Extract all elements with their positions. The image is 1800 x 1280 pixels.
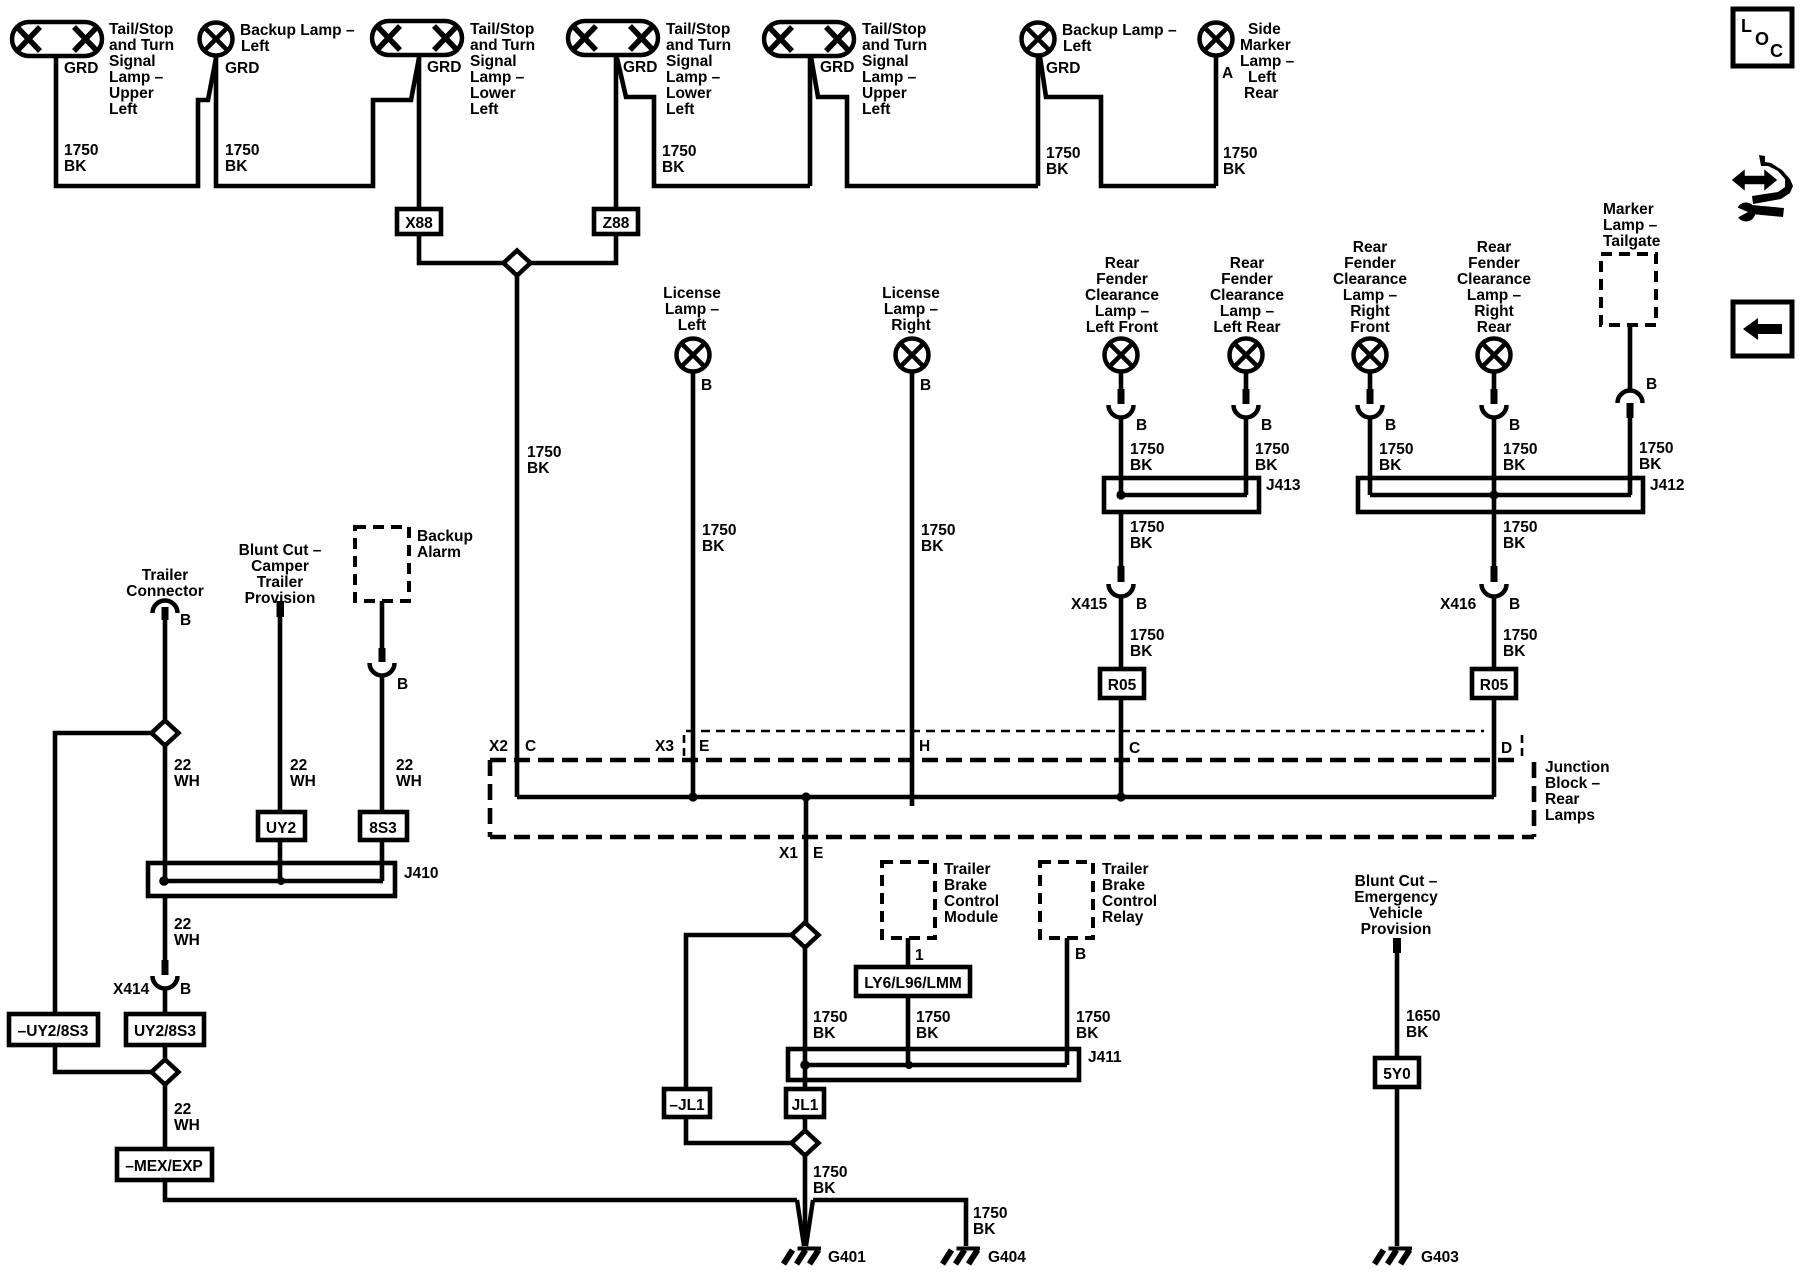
svg-text:G403: G403: [1421, 1249, 1459, 1266]
wire: 1750 BK down to J413: [1119, 416, 1124, 495]
lamp: Rear Fender Clearance Lamp - Left Front: [1105, 339, 1138, 372]
ground G403: [1375, 1247, 1413, 1265]
svg-text:LY6/L96/LMM: LY6/L96/LMM: [864, 975, 962, 992]
lamp: Rear Fender Clearance Lamp - Left Rear: [1230, 339, 1263, 372]
svg-text:X2: X2: [489, 738, 508, 755]
wire: 22 WH from diamond down to J410: [163, 745, 168, 881]
junction block connector face (thin dashed): [686, 730, 1484, 733]
splice pack J413: [1104, 478, 1259, 512]
svg-text:B: B: [1385, 417, 1396, 434]
splice diamond upper left: [152, 721, 179, 746]
option box -MEX/EXP: [117, 1149, 212, 1180]
wire: 1650 BK from blunt cut down to 5Y0: [1395, 951, 1400, 1058]
svg-text:B: B: [180, 981, 191, 998]
svg-text:J412: J412: [1650, 477, 1684, 494]
svg-text:GRD: GRD: [64, 60, 98, 77]
svg-text:J411: J411: [1088, 1049, 1122, 1066]
svg-text:–JL1: –JL1: [669, 1097, 705, 1114]
lamp: Backup Lamp - Left (right circle X): [1022, 23, 1055, 56]
svg-text:X416: X416: [1440, 596, 1477, 613]
svg-text:B: B: [1509, 417, 1520, 434]
wire: 22 WH from trailer connector down: [163, 618, 168, 721]
junction dot at license left: [688, 792, 697, 801]
ground G404: [943, 1247, 981, 1265]
component: Marker Lamp - Tailgate (dashed box): [1601, 254, 1656, 325]
option box UY2: [258, 812, 305, 840]
wire: 1750 BK down into J413 bus bar: [1244, 416, 1249, 495]
connector Z88: [594, 209, 638, 234]
lamp: Tail/Stop and Turn Signal Lamp - Lower Left (second stadium): [568, 21, 658, 55]
svg-text:G401: G401: [828, 1249, 866, 1266]
wire: 1750 BK down into J412 bus bar: [1368, 416, 1373, 495]
svg-text:G404: G404: [988, 1249, 1026, 1266]
svg-text:C: C: [1770, 41, 1783, 61]
splice pack J412: [1358, 478, 1643, 512]
blunt cut stub (emergency vehicle provision): [1393, 938, 1401, 953]
svg-text:R05: R05: [1480, 677, 1509, 694]
svg-text:B: B: [1075, 946, 1086, 963]
svg-text:B: B: [920, 377, 931, 394]
wire: 1750 BK from X415 to R05: [1119, 595, 1124, 669]
wire: from bus down through X1 pin E: [804, 797, 809, 923]
svg-text:GRD: GRD: [1046, 60, 1080, 77]
splice diamond lower left: [152, 1060, 179, 1085]
wire from JL1 to lower middle diamond: [803, 1117, 808, 1131]
connector R05 right: [1472, 669, 1516, 698]
wire: 1750 BK from lower diamond to ground G401: [803, 1155, 808, 1246]
option box LY6/L96/LMM: [856, 967, 970, 996]
svg-text:X88: X88: [405, 215, 433, 232]
inline connector X416: [1491, 566, 1498, 582]
svg-text:–UY2/8S3: –UY2/8S3: [18, 1023, 89, 1040]
wire from -MEX/EXP to ground bus: [165, 1180, 797, 1200]
wire: 1750 BK from tailgate connector to J412: [1628, 414, 1633, 495]
option box -UY2/8S3: [9, 1014, 98, 1045]
svg-text:–MEX/EXP: –MEX/EXP: [125, 1158, 203, 1175]
svg-text:B: B: [1261, 417, 1272, 434]
lamp: Tail/Stop and Turn Signal Lamp - Lower Left (stadium): [372, 21, 462, 55]
svg-text:Blunt Cut –EmergencyVehiclePro: Blunt Cut –EmergencyVehicleProvision: [1354, 873, 1438, 938]
svg-text:GRD: GRD: [225, 60, 259, 77]
inline connector X414: [162, 960, 169, 975]
junction dot at pin C wire: [1116, 792, 1125, 801]
icon: LOC reference box: [1733, 9, 1792, 66]
svg-text:J410: J410: [404, 865, 438, 882]
wire: lamp5 GRD left leg down to bus: [808, 56, 813, 186]
wire: long 1750 BK from diamond down to junction block pin C: [515, 275, 520, 797]
wire from 5Y0 down to ground G403: [1395, 1087, 1400, 1246]
splice diamond of X88/Z88 wires: [504, 251, 531, 276]
wire: 1750 BK from diamond down through J411: [803, 947, 808, 1089]
svg-text:B: B: [1646, 376, 1657, 393]
connector R05 left: [1100, 669, 1144, 698]
splice pack J411: [788, 1049, 1079, 1080]
svg-text:X414: X414: [113, 981, 150, 998]
inline connector B of tailgate marker: [1618, 391, 1643, 404]
wire: 1750 BK from LY6/L96/LMM down to J411 bus bar: [906, 996, 911, 1065]
wire: 1750 BK from X416 to R05: [1492, 595, 1497, 669]
svg-text:Z88: Z88: [603, 215, 630, 232]
svg-text:X1: X1: [779, 845, 798, 862]
wire: lamp3 GRD down through X88: [419, 56, 504, 263]
inline connector of trailer connector: [153, 601, 178, 614]
wire from UY2/8S3 to lower diamond: [163, 1045, 168, 1060]
wire: 22 WH from J410 down to X414: [163, 896, 168, 962]
wire stub and inline connector below left rear clearance lamp: [1244, 371, 1249, 403]
svg-text:B: B: [701, 377, 712, 394]
wire: 1750 BK down through J412: [1492, 416, 1497, 512]
svg-text:C: C: [1129, 740, 1140, 757]
option box 8S3: [360, 812, 407, 840]
option box -JL1: [664, 1089, 710, 1117]
wire stub and inline connector below left front clearance lamp: [1119, 371, 1124, 403]
svg-text:A: A: [1222, 65, 1233, 82]
svg-text:B: B: [1509, 596, 1520, 613]
svg-text:UY2: UY2: [266, 820, 296, 837]
wire from trailer brake control module pin 1: [906, 938, 911, 967]
wire from X414 to UY2/8S3 box: [163, 987, 168, 1014]
wire: branch from diamond to -JL1: [686, 935, 792, 1089]
inline connector X415: [1118, 566, 1125, 582]
splice diamond lower middle: [792, 1131, 819, 1156]
svg-text:J413: J413: [1266, 477, 1301, 494]
wire from UY2 into J410 bus bar: [278, 840, 283, 881]
svg-text:8S3: 8S3: [369, 820, 397, 837]
wire: backup lamp right GRD right leg to bus toward side marker: [1040, 57, 1216, 186]
wire from 8S3 into J410 bus bar: [382, 840, 383, 881]
wire: 1750 BK from R05 to junction block pin C: [1119, 698, 1124, 797]
wire from lower diamond down to -MEX/EXP: [163, 1084, 168, 1149]
wire: 1750 BK from R05 to junction block pin D: [1492, 698, 1497, 797]
svg-text:GRD: GRD: [820, 59, 854, 76]
junction dot at X1 E drop: [801, 792, 810, 801]
wire stub and inline connector below right rear clearance lamp: [1492, 371, 1497, 403]
wire from backup alarm down: [380, 601, 385, 650]
wire: 1750 BK from J412 down to X416: [1492, 512, 1497, 568]
blunt cut stub (camper trailer provision): [277, 601, 285, 617]
svg-text:D: D: [1501, 740, 1512, 757]
lamp: License Lamp - Left (circle X): [677, 339, 710, 372]
svg-text:X415: X415: [1071, 596, 1108, 613]
splice diamond upper middle: [792, 923, 819, 948]
wire: side marker lamp down to bus: [1214, 55, 1219, 186]
component: Trailer Brake Control Relay (dashed box): [1040, 862, 1093, 938]
wire: 1750 BK from J413 down to X415: [1119, 512, 1124, 568]
svg-text:JL1: JL1: [792, 1097, 819, 1114]
wire: 1750 BK from lamp1 GRD down and right: [56, 56, 216, 186]
connector X88: [397, 209, 441, 234]
svg-text:B: B: [1136, 417, 1147, 434]
svg-text:5Y0: 5Y0: [1383, 1066, 1411, 1083]
icon: connector repair (double arrow with wrench): [1733, 155, 1793, 222]
wire: lamp4 GRD right leg to bus toward lamp5: [617, 58, 810, 186]
svg-text:X3: X3: [655, 738, 674, 755]
svg-text:E: E: [813, 845, 823, 862]
svg-text:B: B: [1136, 596, 1147, 613]
ground bus right segment to G404: [813, 1200, 966, 1246]
component: Trailer Brake Control Module (dashed box): [882, 862, 935, 938]
lamp: Tail/Stop and Turn Signal Lamp - Upper Left (stadium right): [764, 22, 854, 56]
option box 5Y0: [1375, 1058, 1419, 1087]
wire from trailer brake control relay pin B: [1065, 938, 1070, 1065]
wire: lamp4 GRD down through Z88 to diamond: [530, 56, 616, 263]
wire: backup lamp right GRD down to bus: [1036, 55, 1041, 186]
svg-text:UY2/8S3: UY2/8S3: [134, 1023, 196, 1040]
wire: license left 1750 BK down to junction block pin E: [691, 371, 696, 797]
svg-text:GRD: GRD: [427, 59, 461, 76]
wire stub and inline connector below right front clearance lamp: [1368, 371, 1373, 403]
option box JL1: [786, 1089, 824, 1117]
svg-text:GRD: GRD: [623, 59, 657, 76]
svg-text:L: L: [1741, 16, 1752, 36]
wire: license right 1750 BK down to junction block pin H: [910, 371, 915, 806]
svg-text:MarkerLamp –Tailgate: MarkerLamp –Tailgate: [1603, 201, 1661, 250]
svg-text:H: H: [919, 738, 930, 755]
wire: 22 WH from blunt cut down to UY2: [278, 615, 283, 812]
svg-text:R05: R05: [1108, 677, 1137, 694]
wire from tailgate marker lamp down: [1628, 325, 1633, 392]
ground G401: [784, 1247, 822, 1265]
svg-text:B: B: [397, 676, 408, 693]
lamp: Side Marker Lamp - Left Rear (circle X): [1200, 23, 1233, 56]
svg-text:B: B: [180, 612, 191, 629]
svg-text:O: O: [1755, 29, 1769, 49]
wire: lamp5 GRD right leg to bus toward backup lamp right: [811, 57, 1038, 186]
icon: back arrow box: [1733, 302, 1792, 356]
inline connector B of backup alarm: [379, 648, 386, 662]
lamp: License Lamp - Right (circle X): [896, 339, 929, 372]
wire: 22 WH from backup alarm connector to 8S3: [380, 674, 385, 812]
lamp: Backup Lamp - Left (circle X): [200, 23, 233, 56]
svg-text:1: 1: [915, 947, 924, 964]
lamp: Rear Fender Clearance Lamp - Right Rear: [1478, 339, 1511, 372]
svg-text:E: E: [699, 738, 709, 755]
wire from -JL1 to lower diamond: [686, 1117, 792, 1143]
svg-text:C: C: [525, 738, 536, 755]
lamp: Tail/Stop and Turn Signal Lamp - Upper Left (stadium, dual X): [12, 22, 102, 56]
component: Backup Alarm (dashed box): [355, 527, 409, 601]
splice pack J410: [148, 863, 395, 896]
junction block - rear lamps (thick dashed outline): [490, 758, 1516, 763]
ground bus inside junction block: [517, 795, 1494, 800]
wire: backup lamp left GRD down to ground bus toward lamp3: [216, 55, 419, 186]
option box UY2/8S3: [126, 1014, 204, 1045]
wire: left bypass loop from upper diamond: [55, 733, 152, 1072]
ground bus funnel into G401: [797, 1200, 813, 1246]
lamp: Rear Fender Clearance Lamp - Right Front: [1354, 339, 1387, 372]
